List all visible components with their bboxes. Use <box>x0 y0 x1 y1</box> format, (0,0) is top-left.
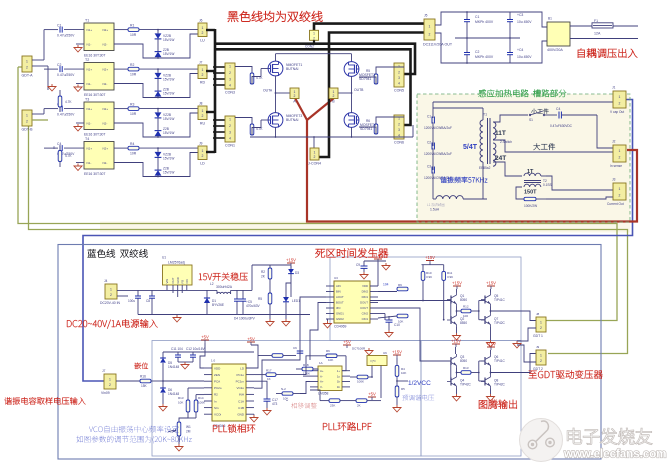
svg-text:4.7K: 4.7K <box>65 100 72 104</box>
svg-text:4: 4 <box>229 137 231 141</box>
svg-text:1: 1 <box>619 187 621 191</box>
svg-text:A-: A- <box>320 374 323 378</box>
svg-text:C1B: C1B <box>238 406 244 410</box>
svg-text:3IN: 3IN <box>336 306 340 310</box>
svg-text:15V/1W: 15V/1W <box>163 38 174 42</box>
svg-text:SIn: SIn <box>214 406 219 410</box>
svg-text:15V/1W: 15V/1W <box>163 77 174 81</box>
svg-text:CIN2: CIN2 <box>362 312 369 316</box>
svg-text:1A: 1A <box>319 361 323 365</box>
svg-text:N2-: N2- <box>103 43 108 47</box>
svg-text:COUT: COUT <box>360 306 368 310</box>
svg-text:2: 2 <box>110 293 112 297</box>
svg-text:C2: C2 <box>427 141 431 145</box>
svg-text:MKPh 400V: MKPh 400V <box>475 55 494 59</box>
svg-text:1+: 1+ <box>337 369 341 373</box>
svg-text:EE16 30T:30T: EE16 30T:30T <box>84 172 106 176</box>
svg-text:2: 2 <box>540 359 542 363</box>
svg-text:0.47u/250V: 0.47u/250V <box>57 113 75 117</box>
svg-text:1: 1 <box>540 320 542 324</box>
svg-text:J9: J9 <box>199 142 203 146</box>
svg-text:10R: 10R <box>130 112 137 116</box>
svg-text:W1: W1 <box>186 425 191 429</box>
svg-text:10R: 10R <box>130 73 137 77</box>
svg-text:+C3: +C3 <box>517 13 523 17</box>
svg-text:1: 1 <box>229 118 231 122</box>
svg-text:N2-: N2- <box>103 82 108 86</box>
svg-text:F1: F1 <box>594 19 598 23</box>
svg-text:J5: J5 <box>424 14 428 18</box>
svg-text:1: 1 <box>314 150 316 154</box>
svg-text:N2-: N2- <box>103 122 108 126</box>
svg-text:EE16 30T:30T: EE16 30T:30T <box>84 133 106 137</box>
svg-text:GND: GND <box>176 277 180 283</box>
svg-text:DC311V/20A OUT: DC311V/20A OUT <box>423 43 453 47</box>
svg-text:0.1SS: 0.1SS <box>543 183 552 187</box>
svg-text:GDT-A: GDT-A <box>22 74 34 78</box>
svg-text:+15V: +15V <box>373 254 383 259</box>
svg-text:www.elecfans.com: www.elecfans.com <box>563 449 666 461</box>
svg-text:T3: T3 <box>85 98 89 102</box>
svg-text:+5V: +5V <box>343 340 351 345</box>
svg-text:1T: 1T <box>527 169 534 175</box>
svg-text:J2: J2 <box>612 140 616 144</box>
svg-text:300uH42A: 300uH42A <box>216 285 233 289</box>
svg-text:2: 2 <box>619 101 621 105</box>
svg-text:R9: R9 <box>398 283 402 287</box>
svg-text:1o: 1o <box>337 374 341 378</box>
svg-text:R2: R2 <box>261 270 265 274</box>
svg-text:CIN1: CIN1 <box>362 317 369 321</box>
svg-text:R2: R2 <box>214 393 218 397</box>
svg-text:R17: R17 <box>266 369 272 373</box>
svg-text:15V/1W: 15V/1W <box>163 52 174 56</box>
svg-text:470u/63V: 470u/63V <box>246 304 261 308</box>
svg-text:1: 1 <box>26 60 28 64</box>
svg-text:GND2: GND2 <box>336 317 344 321</box>
svg-text:1N4148: 1N4148 <box>168 365 179 369</box>
svg-text:PC1o: PC1o <box>236 373 244 377</box>
svg-text:1200VA/CWBA/2uF: 1200VA/CWBA/2uF <box>424 176 452 180</box>
svg-text:3: 3 <box>229 77 231 81</box>
svg-text:SD7941: SD7941 <box>360 127 372 131</box>
svg-text:2: 2 <box>202 31 204 35</box>
svg-text:D3: D3 <box>295 271 299 275</box>
svg-text:2: 2 <box>313 36 315 40</box>
svg-text:1.5uH: 1.5uH <box>430 208 440 212</box>
svg-text:10K: 10K <box>328 358 333 362</box>
svg-text:3: 3 <box>229 130 231 134</box>
svg-text:DOUT: DOUT <box>360 301 368 305</box>
svg-text:N1+: N1+ <box>87 107 93 111</box>
svg-text:2: 2 <box>229 124 231 128</box>
svg-text:100K/2W: 100K/2W <box>524 204 537 208</box>
svg-text:In sense: In sense <box>610 164 622 168</box>
svg-text:DIN1: DIN1 <box>362 295 369 299</box>
svg-text:2: 2 <box>398 122 400 126</box>
svg-text:J4: J4 <box>104 279 108 283</box>
svg-text:2: 2 <box>619 155 621 159</box>
svg-text:C9: C9 <box>356 263 360 267</box>
svg-text:C12 10u/16V: C12 10u/16V <box>186 347 205 351</box>
svg-text:1: 1 <box>619 95 621 99</box>
svg-text:AIN: AIN <box>336 284 341 288</box>
svg-text:T2: T2 <box>85 58 89 62</box>
svg-text:100: 100 <box>463 314 468 318</box>
svg-text:TIP41C: TIP41C <box>494 359 506 363</box>
svg-text:2M: 2M <box>186 430 191 434</box>
svg-text:LM2576adj: LM2576adj <box>168 261 185 265</box>
svg-text:10R: 10R <box>130 33 137 37</box>
svg-text:R2: R2 <box>130 63 134 67</box>
svg-text:R4: R4 <box>130 142 134 146</box>
svg-text:VC2o: VC2o <box>236 386 244 390</box>
svg-text:2: 2 <box>202 114 204 118</box>
svg-text:INH: INH <box>239 393 244 397</box>
svg-text:1: 1 <box>540 353 542 357</box>
svg-text:CON2: CON2 <box>305 45 314 49</box>
svg-text:T1: T1 <box>483 113 487 117</box>
svg-text:+15V: +15V <box>392 350 402 355</box>
svg-text:CON6: CON6 <box>394 141 404 145</box>
svg-text:R5: R5 <box>401 387 405 391</box>
svg-text:2: 2 <box>202 73 204 77</box>
svg-text:+15V: +15V <box>486 342 496 347</box>
svg-text:RU: RU <box>200 121 206 125</box>
svg-text:N1-: N1- <box>87 43 92 47</box>
svg-text:OUTA: OUTA <box>263 89 273 93</box>
svg-text:2: 2 <box>294 94 296 98</box>
svg-text:0.47uF630VDC: 0.47uF630VDC <box>550 124 573 128</box>
svg-text:CD4069: CD4069 <box>334 325 347 329</box>
svg-text:C1A: C1A <box>238 399 244 403</box>
svg-text:J9: J9 <box>536 345 540 349</box>
svg-text:TIP42C: TIP42C <box>460 383 472 387</box>
svg-text:GDT 2: GDT 2 <box>533 367 543 371</box>
svg-text:A+: A+ <box>320 380 324 384</box>
svg-text:+15V: +15V <box>425 255 435 260</box>
svg-text:R6: R6 <box>326 349 330 353</box>
svg-text:OUT: OUT <box>171 277 175 283</box>
svg-text:N2+: N2+ <box>103 28 109 32</box>
svg-text:+15V: +15V <box>452 281 462 286</box>
svg-text:2K: 2K <box>357 404 361 408</box>
svg-text:1/2VCC: 1/2VCC <box>408 380 431 387</box>
svg-text:R13: R13 <box>178 396 184 400</box>
svg-text:VDD: VDD <box>362 284 368 288</box>
svg-text:8550: 8550 <box>460 321 467 325</box>
svg-text:N1+: N1+ <box>87 147 93 151</box>
svg-text:LED1: LED1 <box>292 299 300 303</box>
svg-text:1: 1 <box>202 68 204 72</box>
svg-text:N2+: N2+ <box>103 147 109 151</box>
svg-text:2.Switch: 2.Switch <box>500 140 512 144</box>
svg-text:N1+: N1+ <box>87 28 93 32</box>
svg-text:C8: C8 <box>146 299 150 303</box>
svg-text:In: In <box>214 399 217 403</box>
svg-text:+5V: +5V <box>368 392 376 397</box>
svg-text:10R: 10R <box>130 152 137 156</box>
svg-text:1: 1 <box>109 377 111 381</box>
svg-text:11T: 11T <box>495 130 506 137</box>
svg-text:1: 1 <box>202 26 204 30</box>
svg-text:2: 2 <box>202 154 204 158</box>
svg-text:1: 1 <box>313 32 315 36</box>
svg-text:DIN2: DIN2 <box>362 290 369 294</box>
svg-text:U3: U3 <box>334 276 338 280</box>
svg-text:J6: J6 <box>199 19 203 23</box>
svg-text:+5V: +5V <box>247 337 255 342</box>
svg-text:J-CON4: J-CON4 <box>308 162 321 166</box>
svg-text:+15V: +15V <box>286 258 296 263</box>
svg-text:5/4T: 5/4T <box>463 144 478 151</box>
svg-text:2: 2 <box>429 32 431 36</box>
svg-text:BUTNAI: BUTNAI <box>286 67 298 71</box>
svg-text:4: 4 <box>229 84 231 88</box>
svg-text:2: 2 <box>26 120 28 124</box>
svg-text:RD: RD <box>200 80 206 84</box>
svg-text:2: 2 <box>619 193 621 197</box>
svg-text:OUTB: OUTB <box>354 88 364 92</box>
svg-text:CON1: CON1 <box>225 144 235 148</box>
svg-text:GDT-B: GDT-B <box>22 128 34 132</box>
svg-text:C4: C4 <box>57 142 61 146</box>
svg-text:1: 1 <box>110 287 112 291</box>
svg-text:100u: 100u <box>128 299 135 303</box>
svg-text:2: 2 <box>398 70 400 74</box>
svg-text:N1-: N1- <box>87 122 92 126</box>
svg-text:C11 104: C11 104 <box>171 347 183 351</box>
svg-text:FB: FB <box>180 280 184 284</box>
svg-text:L2: L2 <box>210 282 214 286</box>
svg-text:S1: S1 <box>529 118 533 122</box>
svg-text:C1: C1 <box>57 23 61 27</box>
svg-text:ON: ON <box>185 279 189 283</box>
svg-text:CON5: CON5 <box>394 89 404 93</box>
svg-text:N-2: N-2 <box>281 387 286 391</box>
svg-text:15V/1W: 15V/1W <box>163 170 174 174</box>
svg-text:15V/1W: 15V/1W <box>163 131 174 135</box>
svg-text:15V/1W: 15V/1W <box>163 117 174 121</box>
svg-text:J1: J1 <box>612 86 616 90</box>
svg-text:2: 2 <box>26 66 28 70</box>
svg-text:2: 2 <box>229 71 231 75</box>
svg-text:1b: 1b <box>337 385 341 389</box>
svg-text:C1: C1 <box>475 15 479 19</box>
svg-text:TIP42C: TIP42C <box>494 383 506 387</box>
svg-text:AOUT: AOUT <box>336 295 344 299</box>
svg-text:100K: 100K <box>357 380 364 384</box>
svg-text:C3: C3 <box>427 165 431 169</box>
svg-text:N1+: N1+ <box>87 68 93 72</box>
svg-text:3.9K: 3.9K <box>447 275 453 279</box>
svg-text:8050: 8050 <box>460 359 467 363</box>
svg-text:=7=: =7= <box>370 360 376 364</box>
svg-text:24T: 24T <box>495 155 506 162</box>
svg-text:J8: J8 <box>536 312 540 316</box>
svg-text:1: 1 <box>202 109 204 113</box>
svg-text:0.47u/250V: 0.47u/250V <box>57 34 75 38</box>
svg-text:C2: C2 <box>475 50 479 54</box>
svg-text:T4: T4 <box>85 137 89 141</box>
svg-text:R12: R12 <box>463 305 469 309</box>
svg-text:1b: 1b <box>337 380 341 384</box>
svg-text:104: 104 <box>383 283 389 287</box>
svg-text:LD: LD <box>200 161 205 165</box>
svg-text:150T: 150T <box>524 190 537 196</box>
svg-text:400V/20A: 400V/20A <box>547 48 563 52</box>
svg-text:10K: 10K <box>283 397 288 401</box>
svg-text:A+: A+ <box>320 369 324 373</box>
svg-text:BUTNAI: BUTNAI <box>286 118 298 122</box>
svg-text:10u 450V: 10u 450V <box>517 20 532 24</box>
svg-text:EE16 30T:30T: EE16 30T:30T <box>84 93 106 97</box>
svg-text:SD7941: SD7941 <box>359 77 371 81</box>
svg-text:12A: 12A <box>594 32 601 36</box>
svg-text:PC2o: PC2o <box>214 386 222 390</box>
svg-text:1K: 1K <box>267 377 271 381</box>
svg-text:DC20V-40 IN: DC20V-40 IN <box>100 301 121 305</box>
svg-text:2: 2 <box>109 383 111 387</box>
svg-text:J7: J7 <box>102 369 106 373</box>
svg-text:1: 1 <box>229 65 231 69</box>
svg-text:1200VA/CWBA/2uF: 1200VA/CWBA/2uF <box>424 152 452 156</box>
svg-text:R13: R13 <box>463 366 469 370</box>
svg-text:GDT 1: GDT 1 <box>533 334 543 338</box>
svg-text:D4 1000u/3PV: D4 1000u/3PV <box>234 317 256 321</box>
svg-text:EE16 30T:30T: EE16 30T:30T <box>84 54 106 58</box>
svg-text:PCA: PCA <box>214 380 220 384</box>
svg-text:EE85a2: EE85a2 <box>479 166 491 170</box>
svg-text:C4: C4 <box>556 107 560 111</box>
svg-text:10K: 10K <box>178 401 183 405</box>
svg-text:U6: U6 <box>383 351 387 355</box>
svg-text:473: 473 <box>272 402 278 406</box>
svg-text:N1-: N1- <box>87 82 92 86</box>
svg-text:TIP42C: TIP42C <box>494 321 506 325</box>
svg-text:15V/1W: 15V/1W <box>163 156 174 160</box>
svg-text:+5V: +5V <box>201 335 209 340</box>
svg-text:TIP41C: TIP41C <box>494 298 506 302</box>
svg-text:GND1: GND1 <box>336 312 344 316</box>
svg-text:VDD: VDD <box>214 366 221 370</box>
svg-text:C1: C1 <box>427 115 431 119</box>
svg-text:1: 1 <box>619 149 621 153</box>
svg-text:8050: 8050 <box>460 298 467 302</box>
svg-text:ZEN: ZEN <box>214 373 220 377</box>
svg-text:+C4: +C4 <box>517 48 523 52</box>
svg-text:3.9K: 3.9K <box>426 275 432 279</box>
svg-text:BYV26E: BYV26E <box>212 303 224 307</box>
svg-text:V-: V- <box>320 385 323 389</box>
svg-text:CON3: CON3 <box>225 91 235 95</box>
svg-text:N2-: N2- <box>103 161 108 165</box>
svg-text:T1: T1 <box>85 19 89 23</box>
svg-text:C10: C10 <box>394 323 400 327</box>
svg-text:4: 4 <box>398 82 400 86</box>
svg-text:DC?100R: DC?100R <box>352 347 366 351</box>
svg-text:1: 1 <box>26 114 28 118</box>
svg-text:MKPh 400V: MKPh 400V <box>475 20 494 24</box>
svg-text:10u 450V: 10u 450V <box>517 55 532 59</box>
svg-text:3: 3 <box>398 128 400 132</box>
svg-text:BOUT: BOUT <box>336 301 344 305</box>
svg-text:1: 1 <box>202 149 204 153</box>
svg-text:2: 2 <box>333 94 335 98</box>
svg-text:V cap Out: V cap Out <box>610 110 624 114</box>
svg-text:4.7K: 4.7K <box>65 154 72 158</box>
svg-text:N1-: N1- <box>87 161 92 165</box>
svg-text:J7: J7 <box>199 61 203 65</box>
svg-text:Vin09: Vin09 <box>101 391 110 395</box>
svg-text:PC1m: PC1m <box>236 380 245 384</box>
svg-text:C2: C2 <box>57 63 61 67</box>
svg-text:100K: 100K <box>198 401 205 405</box>
svg-text:VCOi: VCOi <box>214 413 222 417</box>
svg-text:R3: R3 <box>130 103 134 107</box>
svg-text:15K: 15K <box>141 384 148 388</box>
svg-text:N2+: N2+ <box>103 68 109 72</box>
svg-text:VIN: VIN <box>165 279 169 284</box>
svg-text:2: 2 <box>314 155 316 159</box>
svg-text:BIN: BIN <box>336 290 341 294</box>
svg-text:R1: R1 <box>130 24 134 28</box>
svg-text:+15V: +15V <box>451 339 461 344</box>
svg-text:15V/1W: 15V/1W <box>163 91 174 95</box>
svg-text:B1: B1 <box>548 17 552 21</box>
svg-text:LU: LU <box>200 38 205 42</box>
svg-text:10K: 10K <box>401 371 406 375</box>
svg-text:1200VA/CWBA/2uF: 1200VA/CWBA/2uF <box>424 126 452 130</box>
svg-text:N2+: N2+ <box>103 107 109 111</box>
svg-text:J3: J3 <box>612 178 616 182</box>
svg-text:2: 2 <box>540 326 542 330</box>
svg-text:3: 3 <box>398 76 400 80</box>
svg-text:GND: GND <box>237 413 245 417</box>
svg-text:+15V: +15V <box>486 281 496 286</box>
svg-text:Current Out: Current Out <box>607 202 624 206</box>
svg-text:23K: 23K <box>330 404 335 408</box>
svg-text:0.47u/250V: 0.47u/250V <box>57 73 75 77</box>
svg-text:J8: J8 <box>199 102 203 106</box>
svg-text:1: 1 <box>429 24 431 28</box>
svg-text:R5: R5 <box>258 297 262 301</box>
svg-text:1.0: 1.0 <box>211 359 216 363</box>
svg-text:U1: U1 <box>162 256 166 260</box>
svg-text:C6: C6 <box>293 346 297 350</box>
svg-text:R14: R14 <box>198 396 204 400</box>
svg-text:R16: R16 <box>140 375 146 379</box>
